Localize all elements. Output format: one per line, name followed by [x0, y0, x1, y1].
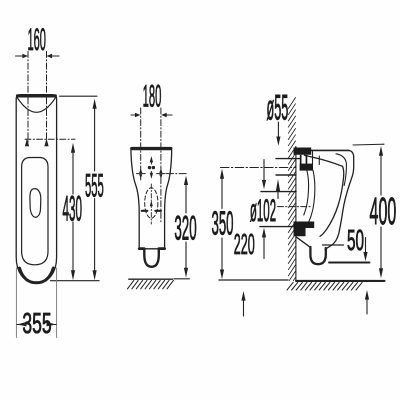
- side view bowl top line: [310, 149, 349, 151]
- dimension arrow ø55: [277, 122, 279, 137]
- dimension 430 line: [72, 153, 74, 195]
- extension line 355 right: [56, 268, 58, 338]
- inlet fitting black strip right: [306, 155, 308, 164]
- side view outlet pipe: [310, 247, 325, 264]
- side view rim inner curve: [336, 154, 346, 186]
- inlet fitting black lower: [300, 164, 313, 171]
- plan view inner seat outline: [22, 158, 48, 265]
- front view right side: [165, 151, 172, 249]
- dimension 220 line: [263, 237, 265, 259]
- svg-text:555: 555: [85, 168, 104, 204]
- svg-text:220: 220: [234, 228, 255, 260]
- front view ground hatch: [128, 280, 174, 288]
- side view rim vertical left: [312, 152, 314, 167]
- front view trap dashed ellipse: [145, 188, 158, 218]
- front view fixing centreline left: [140, 108, 142, 180]
- fixing centreline left (plan): [27, 52, 29, 147]
- supply arrow down: [263, 160, 265, 181]
- front view centre mark: [150, 156, 153, 163]
- inlet fitting black bar: [294, 148, 312, 155]
- plan view flush hole: [30, 189, 41, 218]
- inlet fitting black strip left: [300, 155, 302, 164]
- front view ground line: [129, 278, 173, 280]
- dimension 355 arrows: [17, 322, 27, 327]
- svg-text:350: 350: [211, 206, 233, 243]
- dimension 320 line: [185, 185, 187, 214]
- plan hole arrow right: [44, 138, 48, 146]
- svg-text:ø55: ø55: [267, 88, 289, 128]
- svg-text:ø102: ø102: [250, 193, 276, 229]
- svg-text:320: 320: [174, 211, 196, 248]
- svg-text:180: 180: [143, 79, 162, 114]
- front view trap dashes: [142, 210, 161, 212]
- 400 top extension line: [353, 143, 384, 146]
- side view trap curve A: [304, 171, 309, 216]
- 50 dimension lower reference line: [329, 262, 370, 264]
- supply pipe top line: [276, 158, 300, 160]
- plan view body outline: [16, 95, 56, 283]
- svg-text:400: 400: [370, 190, 397, 233]
- dimension 400 line: [380, 156, 382, 196]
- dimension 160 left arrow: [16, 55, 24, 57]
- dimension 350 line: [221, 179, 223, 209]
- front view fixing centreline right: [160, 108, 162, 222]
- front view top thick edge: [132, 147, 171, 150]
- side view bowl front outline: [325, 150, 354, 249]
- svg-text:50: 50: [347, 224, 364, 257]
- below ground arrow: [243, 300, 245, 316]
- side view ground hatch: [287, 282, 362, 290]
- front view trap arrow: [150, 200, 153, 206]
- side view bowl funnel line: [305, 155, 344, 236]
- plan view thick top edge: [18, 94, 56, 97]
- below ground arrow right: [366, 299, 368, 314]
- side view horizontal centreline upper: [221, 167, 297, 169]
- outlet bottom line: [260, 226, 310, 228]
- front view trap centreline: [150, 184, 152, 224]
- side view ground line right: [296, 280, 385, 282]
- side view outlet centreline: [278, 206, 312, 208]
- wall face line: [295, 147, 297, 281]
- svg-text:160: 160: [27, 22, 46, 57]
- side view bowl underside: [296, 237, 310, 248]
- front view hole cross left: [137, 173, 146, 175]
- fixing centreline right (plan): [46, 52, 48, 147]
- plan hole arrow left: [25, 138, 29, 146]
- plan view thick bottom rim arc: [20, 268, 54, 283]
- front view bottom edge: [139, 248, 164, 250]
- svg-text:355: 355: [22, 308, 51, 341]
- outlet top line: [261, 191, 296, 193]
- plan horizontal centreline: [25, 138, 75, 140]
- outlet arrow up: [277, 192, 279, 199]
- dimension 180 left arrow: [131, 114, 136, 116]
- front view left side: [131, 151, 139, 249]
- side view rim vertical right: [318, 156, 320, 165]
- svg-text:430: 430: [63, 188, 83, 228]
- wall section hatch: [288, 98, 295, 281]
- dimension 555 line: [94, 109, 96, 172]
- side view ground line left: [219, 279, 288, 281]
- extension line 355 left: [15, 268, 17, 338]
- dimension 180 right arrow: [166, 114, 172, 116]
- front view hole cross right: [157, 173, 166, 175]
- plan view cistern arc: [17, 98, 55, 113]
- side view trap curve B: [309, 171, 315, 222]
- extension line top for 555: [60, 95, 98, 97]
- outlet fitting black: [294, 222, 315, 237]
- dimension 50 arrow: [365, 238, 367, 253]
- extension line bottom front: [51, 280, 100, 282]
- front view outlet pipe: [144, 249, 159, 267]
- 50 dimension upper reference line: [323, 244, 344, 246]
- front view horizontal centreline: [167, 173, 188, 175]
- dimension 160 right arrow: [52, 55, 60, 57]
- supply pipe bottom line: [276, 174, 296, 176]
